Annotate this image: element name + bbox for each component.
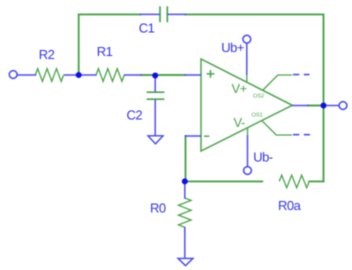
svg-text:R2: R2 (39, 47, 55, 62)
svg-text:OS2: OS2 (253, 94, 264, 100)
svg-text:R0: R0 (150, 200, 166, 215)
svg-text:OS1: OS1 (252, 113, 263, 119)
svg-text:C2: C2 (127, 108, 143, 123)
svg-text:V-: V- (234, 115, 245, 130)
svg-text:Ub+: Ub+ (221, 40, 244, 55)
svg-text:R1: R1 (97, 44, 113, 59)
svg-text:V+: V+ (232, 81, 247, 96)
svg-text:C1: C1 (139, 20, 155, 35)
svg-text:Ub-: Ub- (253, 149, 273, 164)
svg-text:R0a: R0a (278, 198, 302, 213)
